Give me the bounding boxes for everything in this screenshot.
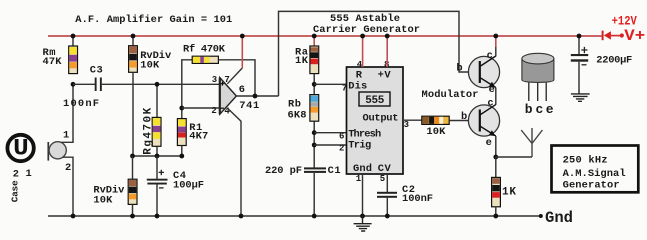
junction C4 / ground rail <box>155 214 160 219</box>
node ground rail <box>48 215 541 217</box>
junction pin4 / rail <box>360 34 365 39</box>
svg-text:1: 1 <box>63 130 69 142</box>
wire op-amp output pin6 <box>236 95 278 97</box>
junction Rm / rail <box>71 34 76 39</box>
junction mic pin2 / ground rail <box>71 214 76 219</box>
wire 555 pin3 output to 10K <box>403 119 422 121</box>
box 250 kHz A.M.Signal Generator <box>552 146 639 193</box>
wire RvDiv column down (crosses signal wire) <box>132 72 134 156</box>
transistor Q2 (lower NPN) <box>468 105 499 137</box>
svg-text:47K: 47K <box>43 56 63 68</box>
wire op-amp output to Q1 base (top route) <box>279 11 479 96</box>
junction RvDiv lower / ground rail <box>130 214 135 219</box>
resistor R1 4K7 <box>177 108 186 156</box>
svg-text:555: 555 <box>365 95 384 107</box>
svg-text:Trig: Trig <box>348 139 371 151</box>
svg-text:Gnd: Gnd <box>545 209 573 227</box>
microphone MIC front view (Case) <box>7 135 33 162</box>
svg-text:250 kHz: 250 kHz <box>563 155 608 167</box>
svg-text:+V: +V <box>378 70 392 82</box>
junction pin7 supply / rail <box>240 34 245 39</box>
capacitor C3 100nF <box>95 78 102 92</box>
svg-text:7: 7 <box>224 75 229 85</box>
svg-text:e: e <box>546 102 554 117</box>
wire summing node (y156) <box>133 155 182 157</box>
wire Q1 collector to rail (red top) <box>495 36 497 47</box>
svg-text:2200µF: 2200µF <box>596 54 632 66</box>
svg-text:Carrier Generator: Carrier Generator <box>313 24 420 36</box>
wire to 555 pin2 Trig <box>314 144 346 146</box>
svg-text:2: 2 <box>13 169 19 181</box>
capacitor C2 100nF <box>377 192 397 216</box>
svg-text:4: 4 <box>224 106 230 116</box>
node V+ terminal dot (red) <box>620 33 624 37</box>
junction R1 / Rf / op-amp pin2 <box>179 106 184 111</box>
svg-text:100µF: 100µF <box>173 180 204 192</box>
svg-text:b: b <box>461 111 467 123</box>
transistor TO-39 can <box>522 53 554 101</box>
svg-text:C1: C1 <box>328 165 341 177</box>
wire Q1 collector (black) <box>495 47 497 56</box>
resistor Rg470K <box>152 84 161 156</box>
IC U2 555 timer body <box>347 67 404 174</box>
svg-text:220 pF: 220 pF <box>265 165 302 177</box>
svg-text:2: 2 <box>339 144 344 154</box>
svg-text:10K: 10K <box>426 126 446 138</box>
wire C3 to op-amp pin3 <box>102 83 220 85</box>
wire emitter node to antenna <box>496 156 532 158</box>
wire Q2 emitter down <box>495 136 497 157</box>
junction RvDiv upper / rail <box>131 34 136 39</box>
antenna <box>521 128 542 157</box>
resistor Rb 6K8 <box>310 95 319 168</box>
resistor RvDiv 10K (lower) <box>128 156 137 216</box>
svg-text:1K: 1K <box>502 187 516 199</box>
ground symbol (555 pin1) <box>354 216 372 231</box>
node A junction (Rm / mic / C3) <box>71 82 76 87</box>
svg-text:1: 1 <box>26 168 32 180</box>
svg-text:10K: 10K <box>93 194 113 206</box>
svg-text:Output: Output <box>363 113 399 125</box>
svg-text:b: b <box>525 102 533 117</box>
svg-text:e: e <box>486 137 492 149</box>
svg-text:e: e <box>489 84 495 96</box>
svg-text:Rf 470K: Rf 470K <box>183 44 226 56</box>
resistor RvDiv 10K (upper) <box>129 36 138 72</box>
resistor R2 1K (output) <box>492 157 501 216</box>
junction C2 / ground rail <box>385 214 390 219</box>
svg-text:A.M.Signal: A.M.Signal <box>563 168 626 180</box>
svg-text:2: 2 <box>211 106 216 116</box>
node Gnd terminal dot <box>539 214 543 218</box>
svg-text:Case: Case <box>9 180 20 202</box>
junction pin1 / ground rail <box>360 214 365 219</box>
resistor Rm 47K <box>69 36 78 74</box>
wire 555 pin5 to C2 <box>386 174 388 192</box>
svg-text:U: U <box>13 136 29 162</box>
svg-text:5: 5 <box>380 174 385 184</box>
svg-text:V+: V+ <box>624 27 645 45</box>
junction Ra / rail <box>312 34 317 39</box>
wire node A to C3 <box>73 83 95 85</box>
resistor 10K (horizontal) <box>422 116 449 124</box>
svg-text:Dis: Dis <box>348 81 367 93</box>
junction Ra-Rb / pin7 wire <box>312 82 317 87</box>
resistor Ra 1K <box>310 36 319 95</box>
wire mic pin2 to ground <box>63 157 74 216</box>
wire red rail to 555 pin4 <box>362 36 364 67</box>
svg-text:c: c <box>487 50 493 62</box>
svg-text:c: c <box>487 98 493 110</box>
svg-text:100nF: 100nF <box>402 193 433 205</box>
svg-text:Rg470K: Rg470K <box>142 107 154 154</box>
svg-text:6: 6 <box>339 132 344 142</box>
svg-text:Generator: Generator <box>563 180 620 192</box>
svg-text:6K8: 6K8 <box>288 110 307 122</box>
wire red V+ to pin7 <box>241 36 243 68</box>
wire to 555 pin7 Dis <box>314 83 346 85</box>
transistor Q1 (upper NPN) <box>468 56 499 88</box>
capacitor 2200uF (electrolytic) <box>571 36 588 90</box>
junction R1 / y156 wire <box>179 154 184 159</box>
svg-text:7: 7 <box>342 83 347 93</box>
junction output node <box>253 94 258 99</box>
junction RvDiv column / y156 wire <box>130 154 135 159</box>
wire red +V tail after diode <box>611 35 620 37</box>
svg-text:741: 741 <box>239 100 259 112</box>
op-amp U1 741 <box>220 78 237 115</box>
svg-text:3: 3 <box>212 75 217 85</box>
wire op-amp pin7 stub <box>227 68 242 84</box>
svg-text:c: c <box>536 102 544 117</box>
junction Q1 collector / rail <box>493 34 498 39</box>
capacitor C4 100uF (electrolytic) <box>147 156 168 216</box>
capacitor C1 220pF <box>304 167 326 216</box>
svg-text:100nF: 100nF <box>63 98 99 110</box>
wire mic pin1 to node A <box>62 84 74 142</box>
svg-text:2: 2 <box>65 162 71 174</box>
junction pin8 / rail <box>385 34 390 39</box>
svg-text:1K: 1K <box>295 55 309 67</box>
svg-text:Modulator: Modulator <box>422 89 479 101</box>
svg-text:C3: C3 <box>90 64 103 76</box>
svg-text:A.F. Amplifier Gain = 101: A.F. Amplifier Gain = 101 <box>75 14 232 26</box>
wire red rail to 555 pin8 <box>386 36 388 67</box>
diode D1 (red, pointing left) <box>602 31 611 41</box>
wire Q1 emitter to Q2 collector <box>495 88 497 105</box>
svg-text:1: 1 <box>356 174 362 184</box>
svg-text:b: b <box>456 63 462 75</box>
junction emitter node <box>493 155 498 160</box>
svg-text:4K7: 4K7 <box>189 131 208 143</box>
svg-text:3: 3 <box>404 120 409 130</box>
junction C4 / y156 wire <box>155 154 160 159</box>
junction C1 / ground rail <box>312 214 317 219</box>
node +V rail (red) <box>48 35 602 37</box>
svg-text:6: 6 <box>239 84 245 96</box>
wire 555 pin1 to ground <box>362 174 364 216</box>
junction Rg470K / signal wire <box>155 82 160 87</box>
wire op-amp pin2 <box>182 107 220 109</box>
svg-text:10K: 10K <box>140 59 160 71</box>
ground symbol (2200uF) <box>571 90 590 101</box>
wire 10K to Q2 base <box>449 120 479 122</box>
wire op-amp pin4 stub to ground <box>228 108 241 216</box>
microphone MIC capsule <box>48 142 66 161</box>
resistor Rf 470K (horizontal) <box>182 56 255 108</box>
junction Trig tap <box>312 143 317 148</box>
junction 1K / ground rail <box>493 214 498 219</box>
junction 2200uF / rail <box>577 34 582 39</box>
junction Rb / Thresh wire <box>312 130 317 135</box>
wire to 555 pin6 Thresh <box>314 132 346 134</box>
junction pin4 / ground rail <box>239 214 244 219</box>
